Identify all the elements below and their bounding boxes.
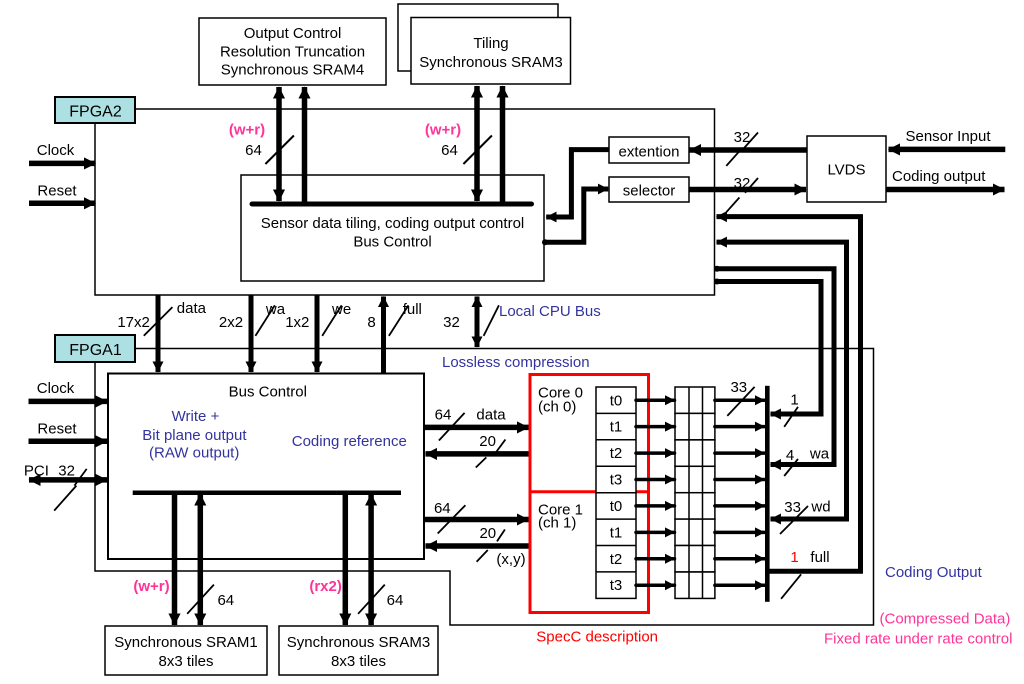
svg-text:wa: wa	[809, 446, 830, 463]
slash: after 32 extention	[744, 133, 758, 149]
svg-text:1: 1	[790, 549, 798, 566]
svg-text:(ch 0): (ch 0)	[538, 399, 576, 416]
box: Bus Control (FPGA1)	[108, 374, 424, 560]
slash: local cpu bus	[484, 305, 499, 336]
node: junction dot we line at FPGA2 edge	[714, 279, 720, 285]
svg-text:Synchronous SRAM3: Synchronous SRAM3	[287, 634, 430, 651]
svg-text:Lossless compression: Lossless compression	[442, 354, 590, 371]
wire: SRAM3 write line (down)	[343, 495, 349, 625]
slash: 33 wd bar	[780, 506, 808, 534]
wire: data bus FPGA2 to FPGA1 (17x2)	[156, 295, 161, 372]
wire: t3 ch1 to grid	[636, 583, 675, 587]
slash: after PCI 32	[74, 469, 86, 486]
svg-text:Tiling: Tiling	[473, 35, 508, 52]
wire: SRAM3 tiling port arrow (bidirectional, left of pair)	[474, 86, 480, 201]
svg-text:Synchronous SRAM3: Synchronous SRAM3	[419, 54, 562, 71]
wire: Reset input arrow to FPGA2	[29, 201, 96, 207]
wire: 20 from Core 1	[426, 543, 531, 549]
box: SpecC description red box (Core 0 / Core 1)	[530, 375, 649, 613]
wire: SRAM4 port arrow (bidirectional, left of pair)	[276, 87, 282, 201]
slash: full bus	[389, 305, 409, 336]
svg-text:LVDS: LVDS	[827, 162, 865, 179]
svg-text:Fixed rate under rate control: Fixed rate under rate control	[824, 631, 1012, 648]
wire: t1 ch1 to grid	[636, 531, 675, 535]
slash: bus width 32 selector	[726, 198, 739, 213]
svg-text:33: 33	[784, 499, 801, 516]
box: tile cells t0-t3 x2	[596, 387, 636, 598]
slash: 20 core0	[496, 440, 505, 453]
node: output bus bar	[765, 386, 770, 602]
FPGA2 outer region box	[95, 109, 715, 295]
svg-text:SpecC description: SpecC description	[536, 629, 658, 646]
wire: full flag from bar up to FPGA2	[717, 217, 861, 572]
wire: 64 to Core 1	[424, 517, 529, 523]
svg-text:Sensor data tiling, coding out: Sensor data tiling, coding output contro…	[261, 215, 525, 232]
svg-text:t1: t1	[610, 525, 623, 542]
svg-text:64: 64	[245, 142, 262, 159]
svg-text:extention: extention	[619, 144, 680, 161]
svg-text:64: 64	[441, 142, 458, 159]
wire: Local CPU Bus (32, bidirectional)	[475, 297, 480, 348]
wire: grid row6 to output bar	[715, 531, 765, 535]
wire: grid row5 to output bar	[715, 504, 765, 508]
box: Tiling Synchronous SRAM3 (front)	[411, 18, 571, 85]
svg-text:Coding output: Coding output	[892, 168, 986, 185]
wire: PCI bus arrow (bidirectional)	[29, 477, 107, 483]
svg-text:(RAW output): (RAW output)	[149, 445, 239, 462]
node: junction dot wa line at FPGA2 edge	[714, 266, 720, 272]
wire: 64 data to Core 0	[424, 425, 529, 431]
svg-text:17x2: 17x2	[117, 314, 150, 331]
slash: 20 core1	[497, 530, 505, 542]
slash: 64 core0	[439, 413, 465, 441]
svg-text:we: we	[331, 301, 351, 318]
wire: Coding output arrow from LVDS	[886, 187, 1005, 193]
svg-text:20: 20	[479, 525, 496, 542]
svg-text:8x3 tiles: 8x3 tiles	[331, 653, 386, 670]
wire: t3 ch0 to grid	[636, 478, 675, 482]
svg-text:data: data	[476, 407, 506, 424]
box: Output Control / Resolution Truncation / Synchronous SRAM4	[199, 18, 386, 85]
svg-text:wd: wd	[810, 499, 830, 516]
svg-text:t3: t3	[610, 472, 623, 489]
wire: t1 ch0 to grid	[636, 425, 675, 429]
svg-text:1: 1	[790, 392, 798, 409]
slash: after 32 selector	[745, 178, 758, 193]
slash: bus width 64 right pair	[463, 136, 492, 165]
svg-text:Synchronous SRAM1: Synchronous SRAM1	[114, 634, 257, 651]
wire: Clock input arrow to FPGA1	[29, 399, 108, 405]
svg-text:Clock: Clock	[37, 380, 75, 397]
svg-text:Local CPU Bus: Local CPU Bus	[499, 303, 601, 320]
box: extention	[609, 137, 689, 163]
svg-text:Bus Control: Bus Control	[229, 384, 307, 401]
svg-text:t2: t2	[610, 551, 623, 568]
svg-text:(w+r): (w+r)	[425, 122, 461, 139]
box: Tiling Synchronous SRAM3 (back copy)	[398, 4, 558, 71]
box: FPGA1 label	[55, 335, 135, 362]
svg-text:t1: t1	[610, 419, 623, 436]
svg-text:64: 64	[434, 500, 451, 517]
wire: grid row7 to output bar	[715, 557, 765, 561]
slash: data bus	[144, 307, 173, 336]
wire: internal bus of FPGA1 bus control	[133, 491, 401, 496]
svg-text:Bit plane output: Bit plane output	[142, 427, 247, 444]
wire: t0 ch1 to grid	[636, 504, 675, 508]
svg-text:8x3 tiles: 8x3 tiles	[158, 653, 213, 670]
FPGA1 outer region box	[95, 349, 874, 626]
wire: internal bus of sensor data tiling block	[252, 202, 532, 207]
svg-text:20: 20	[479, 433, 496, 450]
wire: SRAM1 read line (bidirectional 64)	[198, 494, 204, 625]
wire: wa bus FPGA2 to FPGA1 (2x2)	[249, 295, 254, 372]
slash: 64 SRAM1	[187, 585, 214, 614]
svg-text:Reset: Reset	[37, 183, 77, 200]
wire: red divider between Core 0 and Core 1	[530, 490, 649, 493]
wire: wa bus from FPGA2 down to bar (4)	[715, 269, 835, 465]
slash: PCI bus width	[54, 486, 76, 511]
svg-text:data: data	[177, 300, 207, 317]
svg-text:64: 64	[217, 592, 234, 609]
box: selector	[609, 177, 689, 202]
svg-text:PCI: PCI	[24, 463, 49, 480]
svg-text:Resolution Truncation: Resolution Truncation	[220, 44, 365, 61]
wire: Sensor Input arrow into LVDS	[889, 147, 1006, 153]
slash: bus width 64 left pair	[265, 136, 294, 165]
wire: extention output into bus control block	[546, 150, 609, 217]
wire: LVDS to extention (32)	[690, 147, 808, 153]
box: LVDS	[807, 136, 886, 202]
svg-text:Sensor Input: Sensor Input	[905, 128, 991, 145]
wire: SRAM3 read line (bidirectional 64)	[368, 494, 374, 625]
svg-text:Coding Output: Coding Output	[885, 564, 983, 581]
svg-text:FPGA2: FPGA2	[69, 104, 122, 121]
box: FPGA2 label	[55, 97, 135, 123]
svg-text:32: 32	[443, 314, 460, 331]
svg-text:t0: t0	[610, 498, 623, 515]
slash: 4 wa bar	[784, 459, 798, 476]
svg-text:64: 64	[387, 592, 404, 609]
svg-text:Output Control: Output Control	[244, 25, 342, 42]
wire: grid row1 to output bar (33)	[715, 398, 765, 402]
svg-text:Synchronous SRAM4: Synchronous SRAM4	[221, 62, 364, 79]
box: Sensor data tiling, coding output control / Bus Control	[241, 175, 544, 281]
wire: SRAM3 tiling port arrow (up, right of pair)	[500, 86, 506, 206]
wire: wd bus from FPGA2 down to bar (33, arrows both ends)	[717, 242, 847, 519]
svg-text:64: 64	[435, 407, 452, 424]
wire: Reset input arrow to FPGA1	[29, 439, 108, 445]
slash: full bar	[781, 574, 801, 599]
slash: 33 grid output	[727, 387, 754, 416]
slash: we bus	[322, 305, 341, 336]
wire: t0 ch0 to grid	[636, 398, 675, 402]
wire: bus control output into selector	[544, 189, 608, 242]
wire: grid row4 to output bar	[715, 478, 765, 482]
wire: full flag FPGA1 to FPGA2 (8)	[381, 297, 386, 374]
svg-text:1x2: 1x2	[285, 314, 309, 331]
wire: write enable from FPGA2 down to bar (1)	[715, 282, 822, 415]
wire: t2 ch0 to grid	[636, 451, 675, 455]
svg-text:33: 33	[730, 379, 747, 396]
svg-text:t2: t2	[610, 445, 623, 462]
svg-text:Bus Control: Bus Control	[353, 234, 431, 251]
wire: t2 ch1 to grid	[636, 557, 675, 561]
wire: grid row8 to output bar	[715, 583, 765, 587]
svg-text:FPGA1: FPGA1	[69, 342, 122, 359]
svg-text:4: 4	[786, 447, 794, 464]
svg-text:(w+r): (w+r)	[229, 122, 265, 139]
svg-text:(x,y): (x,y)	[496, 551, 525, 568]
svg-text:Clock: Clock	[37, 142, 75, 159]
wire: we bus FPGA2 to FPGA1 (1x2)	[315, 295, 320, 372]
svg-text:(ch 1): (ch 1)	[538, 515, 576, 532]
wire: SRAM4 port arrow (up, right of pair)	[302, 87, 308, 206]
svg-text:(Compressed Data): (Compressed Data)	[880, 611, 1011, 628]
slash: 1 we bar	[784, 407, 798, 427]
svg-text:Write +: Write +	[172, 408, 220, 425]
svg-text:full: full	[810, 549, 829, 566]
node: junction dot selector wire at bus control edge	[542, 239, 548, 245]
svg-text:(w+r): (w+r)	[133, 578, 169, 595]
wire: selector to LVDS (32)	[689, 187, 806, 193]
wire: SRAM1 write line (down)	[172, 495, 178, 625]
wire: grid row3 to output bar	[715, 451, 765, 455]
box: Synchronous SRAM1 8x3 tiles	[105, 626, 267, 675]
svg-text:Reset: Reset	[37, 421, 77, 438]
slash: bus width 32 extention	[726, 151, 739, 166]
svg-text:2x2: 2x2	[219, 314, 243, 331]
slash: 64 core1	[438, 505, 466, 533]
slash: wa bus	[255, 305, 274, 336]
svg-text:(rx2): (rx2)	[309, 578, 342, 595]
wire: Clock input arrow to FPGA2	[29, 161, 96, 167]
svg-text:selector: selector	[623, 183, 676, 200]
svg-text:8: 8	[367, 314, 375, 331]
box: shift register grid 3x8	[675, 387, 715, 598]
svg-text:t0: t0	[610, 393, 623, 410]
svg-text:t3: t3	[610, 577, 623, 594]
slash: 64 SRAM3	[358, 585, 385, 614]
wire: grid row2 to output bar	[715, 425, 765, 429]
svg-text:32: 32	[58, 463, 75, 480]
wire: 20 from Core 0	[426, 451, 531, 457]
svg-text:Coding reference: Coding reference	[292, 433, 407, 450]
box: Synchronous SRAM3 8x3 tiles	[279, 626, 438, 675]
